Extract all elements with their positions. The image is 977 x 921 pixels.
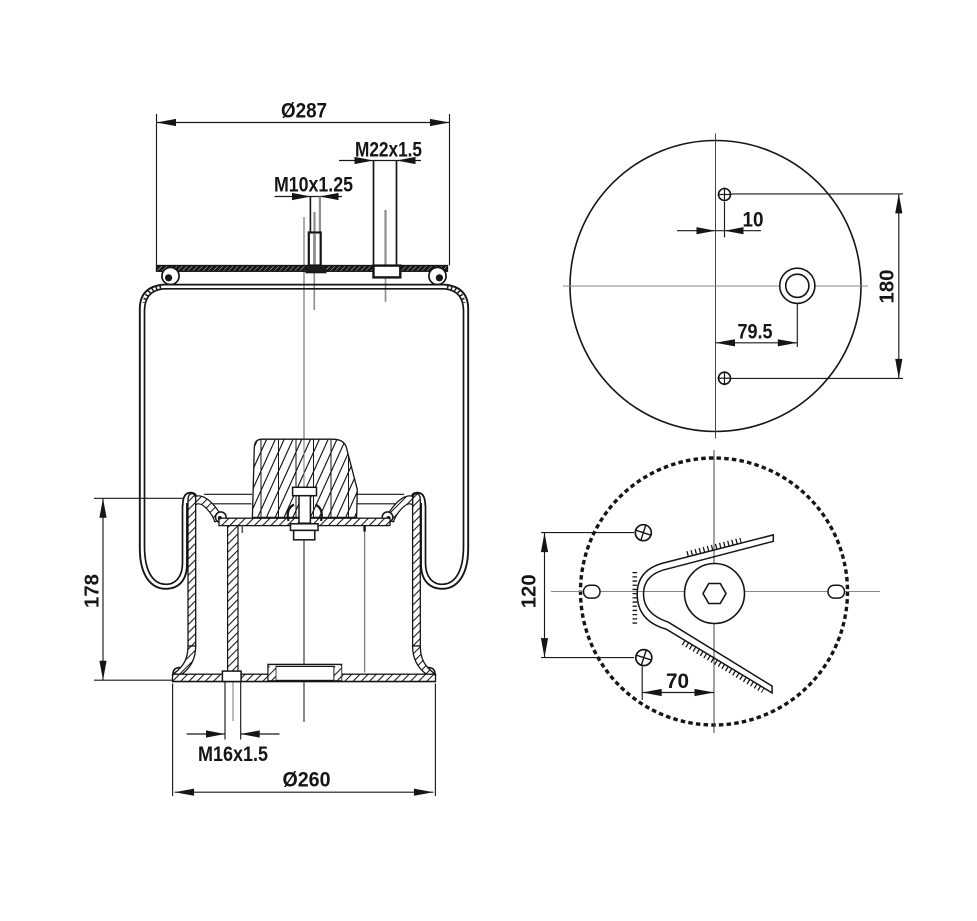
svg-text:Ø287: Ø287 xyxy=(281,99,327,123)
svg-text:120: 120 xyxy=(518,574,541,608)
svg-text:M16x1.5: M16x1.5 xyxy=(198,742,268,766)
svg-text:Ø260: Ø260 xyxy=(283,767,331,791)
svg-text:178: 178 xyxy=(81,574,104,608)
svg-text:10: 10 xyxy=(743,208,764,232)
svg-text:M10x1.25: M10x1.25 xyxy=(274,173,353,197)
svg-text:180: 180 xyxy=(876,270,899,304)
svg-text:70: 70 xyxy=(666,669,689,693)
svg-text:79.5: 79.5 xyxy=(738,319,773,343)
